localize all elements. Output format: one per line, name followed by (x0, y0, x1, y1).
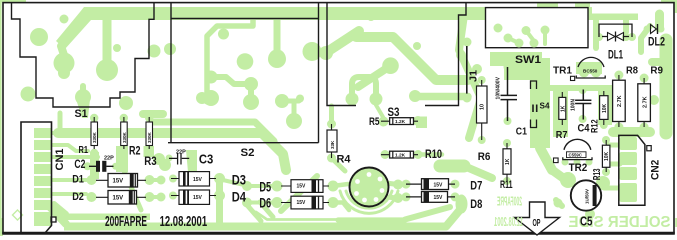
zener D8 (406, 192, 455, 203)
zener D1 (96, 174, 146, 188)
wire patches above SW1 (537, 3, 590, 8)
label S1 (75, 108, 88, 120)
resistor R4 body (327, 124, 337, 158)
svg-text:D5: D5 (259, 179, 271, 194)
label DL1 (608, 47, 623, 61)
resistor R11 pads (503, 139, 511, 185)
wire CN1 breakout traces (50, 133, 98, 224)
label C1 (516, 127, 528, 138)
value R2 rotated (122, 131, 127, 143)
value R1 rotated (92, 131, 97, 143)
svg-text:1K: 1K (505, 158, 511, 165)
diode DL2 (651, 24, 658, 34)
svg-text:C5: C5 (580, 214, 593, 229)
wire J1 pads (463, 38, 472, 103)
wire R4 feed trace (329, 106, 334, 122)
svg-text:R9: R9 (650, 66, 663, 77)
wire CN2 pins (604, 137, 637, 202)
diode D6 pads (242, 197, 349, 210)
switch pin mark (531, 81, 537, 128)
node big pad S3 (358, 57, 399, 87)
node pad S1 area big pad (30, 28, 48, 46)
svg-text:330K: 330K (92, 131, 97, 143)
value 15V D5 (297, 184, 307, 190)
svg-text:BC550: BC550 (583, 69, 598, 74)
svg-text:D7: D7 (470, 180, 482, 192)
svg-text:2.7K: 2.7K (642, 96, 648, 108)
svg-text:22P: 22P (104, 156, 114, 162)
label R2 (129, 143, 141, 157)
svg-text:J1: J1 (468, 70, 480, 82)
svg-text:DL2: DL2 (648, 35, 665, 49)
resistor 1K body (559, 92, 567, 125)
node pad (21, 87, 36, 102)
resistor R13 body (602, 140, 610, 172)
wire resistor bus bar (58, 133, 286, 170)
board edge copper top-right (661, 0, 677, 227)
wire teardrop (243, 90, 259, 110)
zener D3 (171, 172, 216, 186)
svg-text:2.7K: 2.7K (617, 95, 623, 107)
jumper J1 (466, 46, 468, 94)
resistor R12 pads (598, 86, 612, 129)
svg-text:R6: R6 (478, 151, 491, 163)
wire bottom link R8 R9 (613, 127, 650, 137)
date text (105, 213, 207, 230)
svg-text:100N: 100N (571, 99, 577, 111)
label S2 (241, 147, 255, 159)
svg-text:C2: C2 (74, 157, 85, 171)
diode D5 pads (242, 176, 348, 211)
diode D4 pads (169, 179, 225, 227)
svg-text:15V: 15V (113, 195, 124, 201)
diode D8 pads (402, 192, 460, 201)
svg-text:SW1: SW1 (515, 54, 541, 66)
wire bottom bar of S2 region (153, 122, 274, 141)
label S4 (540, 101, 550, 111)
value 15V D8 (434, 195, 444, 201)
node extra pads S2 density (203, 50, 302, 129)
svg-text:R1: R1 (79, 144, 89, 156)
resistor R9 pads (640, 74, 649, 132)
svg-text:C559C: C559C (569, 153, 582, 158)
svg-text:15V: 15V (193, 195, 203, 201)
node pad (113, 44, 121, 52)
wire snake trace S2 (205, 71, 259, 92)
mirrored green 12.08.2001 (494, 215, 523, 229)
svg-text:15V: 15V (193, 177, 203, 183)
svg-text:S1: S1 (75, 108, 88, 120)
svg-text:C1: C1 (516, 127, 528, 138)
node pads inside SW1 (494, 24, 539, 48)
label C4 (578, 122, 591, 134)
label R3 (144, 154, 157, 168)
value 15V D2 (113, 195, 124, 201)
svg-text:C4: C4 (578, 122, 591, 134)
svg-text:10N/400V: 10N/400V (496, 77, 502, 100)
label CN1 rotated (54, 149, 66, 171)
svg-text:S3: S3 (388, 107, 400, 119)
diode D3 pads (169, 173, 225, 184)
node pad right side S2 (303, 42, 322, 61)
svg-text:R3: R3 (144, 154, 157, 168)
label R9 (650, 66, 663, 77)
svg-text:R12: R12 (589, 119, 600, 133)
label R5 (369, 116, 380, 128)
wire stub near R3 top (143, 110, 163, 118)
label D5 (259, 179, 271, 194)
label C5 (580, 214, 593, 229)
wire L trace S2 bottom right (275, 94, 304, 127)
svg-text:D8: D8 (470, 199, 482, 211)
svg-text:R11: R11 (500, 179, 513, 191)
label DL2 (648, 35, 665, 49)
arrow OP (515, 202, 560, 235)
label D2 (72, 191, 84, 203)
capacitor 10N400V pads (504, 63, 513, 126)
svg-text:D6: D6 (259, 196, 271, 211)
label R1 (79, 144, 89, 156)
label D3 (232, 173, 247, 188)
heatsink outline S1 (12, 3, 155, 107)
zener D5 (281, 180, 329, 193)
value R4 rotated (330, 140, 335, 149)
transistor TR2 pads (562, 159, 593, 166)
resistor R2 pads (116, 114, 128, 172)
resistor R12 body (600, 91, 608, 125)
capacitor 22P first (89, 161, 114, 172)
connector CN2 (619, 135, 651, 205)
resistor R6 pads (478, 76, 486, 144)
bridge outline S3 (327, 3, 466, 106)
svg-text:330K: 330K (122, 131, 127, 143)
label R7 (556, 130, 568, 141)
label S3 (388, 107, 400, 119)
label R13 rotated (592, 168, 603, 180)
connector CN1 (21, 122, 56, 233)
label R11 (500, 179, 513, 191)
svg-text:R5: R5 (369, 116, 380, 128)
wire D7 D8 area traces (440, 166, 492, 178)
diode D2 pads (87, 192, 155, 202)
wire stub above bus (58, 113, 63, 130)
label C2 (74, 157, 85, 171)
node pad (238, 54, 253, 69)
resistor R11 body (503, 143, 511, 181)
diode DL1 pads (595, 33, 636, 41)
svg-text:15V: 15V (434, 182, 444, 188)
label SW1 (515, 54, 541, 66)
wire arcs under big cap (340, 191, 398, 213)
label D7 (470, 180, 482, 192)
wire TR1 surround pads (576, 62, 602, 78)
wire D3 to D5 (186, 150, 249, 186)
capacitor 22P second pads (166, 155, 195, 162)
zener D2 (96, 191, 146, 205)
node pad on S3 left edge (319, 46, 333, 60)
value 15V D1 (113, 178, 124, 184)
wire horizontal trace to edge (409, 90, 468, 102)
svg-text:10K: 10K (602, 103, 608, 113)
svg-text:TR1: TR1 (553, 65, 572, 77)
transistor TR2 (554, 139, 593, 162)
diode D1 pads (87, 166, 155, 210)
diode DL2 pads (644, 26, 665, 33)
wire top right verticals (590, 14, 660, 53)
node pad (218, 29, 229, 40)
resistor R9 body (638, 78, 651, 127)
resistor R8 body (613, 75, 626, 127)
label D8 (470, 199, 482, 211)
transistor TR1 (571, 57, 606, 80)
svg-text:DL1: DL1 (608, 47, 623, 61)
capacitor S4 bars (533, 105, 537, 113)
diode DL1 (599, 24, 632, 41)
capacitor 100N with label (571, 90, 592, 120)
svg-text:TR2: TR2 (569, 162, 588, 174)
resistor R3 body (146, 117, 153, 149)
label R8 (626, 66, 638, 77)
label D4 (232, 190, 247, 205)
label CN2 rotated (650, 160, 662, 180)
svg-text:R7: R7 (556, 130, 568, 141)
node pad on S2 left edge (164, 43, 176, 55)
node pad (367, 13, 375, 21)
diode D7 pads (402, 180, 460, 189)
label TR2 (569, 162, 588, 174)
svg-text:D1: D1 (72, 174, 84, 186)
svg-text:1.2K: 1.2K (395, 153, 406, 159)
wire teardrop trace (54, 46, 75, 79)
wire teardrop (75, 86, 91, 118)
resistor R2 body (121, 117, 128, 149)
node pad above R2 (119, 96, 133, 110)
svg-text:D4: D4 (232, 190, 247, 205)
label R4 (337, 153, 352, 165)
capacitor 100N pads (579, 86, 587, 123)
capacitor 22P second (169, 154, 189, 165)
svg-text:33K: 33K (330, 140, 335, 149)
resistor R4 pads (327, 120, 345, 172)
switch outline SW1 (486, 8, 589, 48)
svg-text:15V: 15V (113, 178, 124, 184)
capacitor C5 (571, 180, 601, 210)
label TR1 (553, 65, 572, 77)
resistor R13 pads (602, 136, 610, 176)
value 15V D3 (193, 177, 203, 183)
wire center green column (530, 58, 552, 170)
wire horizontal trace row (547, 85, 618, 91)
mirrored green 200FAPRE (497, 194, 522, 209)
svg-text:R10: R10 (425, 149, 442, 161)
svg-text:15V: 15V (297, 184, 307, 190)
wire link pads D1-D3 (152, 176, 166, 185)
wire right edge column (649, 40, 666, 133)
svg-text:OP: OP (533, 217, 541, 229)
svg-text:10: 10 (480, 104, 486, 110)
label R12 rotated (589, 119, 600, 133)
svg-text:S4: S4 (540, 101, 550, 111)
svg-text:R13: R13 (592, 168, 603, 180)
svg-text:22P: 22P (176, 150, 186, 156)
resistor R3 pads (144, 114, 172, 171)
wire S2 loop trace (196, 14, 253, 105)
label C3 (199, 153, 213, 167)
resistor R10 body (381, 151, 418, 158)
zener D7 (406, 179, 455, 190)
value R5 (395, 119, 406, 125)
label D1 (72, 174, 84, 186)
svg-text:15V: 15V (297, 200, 307, 206)
wire top bus bar (56, 7, 592, 49)
value 15V D6 (297, 200, 307, 206)
svg-text:330K: 330K (147, 131, 152, 143)
capacitor 10N 400V (496, 67, 518, 121)
wire C5 surround (552, 170, 610, 219)
wire link pads D2-D4 (152, 193, 166, 202)
label 22P second (176, 150, 186, 156)
svg-text:R8: R8 (626, 66, 638, 77)
wire bottom bar B (64, 195, 468, 231)
svg-text:R2: R2 (129, 143, 141, 157)
value R10 (395, 153, 406, 159)
resistor R10 pads (381, 150, 443, 159)
svg-text:10K: 10K (604, 151, 610, 161)
wire diagonal right of S3 (456, 15, 481, 138)
label D6 (259, 196, 271, 211)
svg-text:12.08.2001: 12.08.2001 (160, 213, 208, 230)
svg-text:15V: 15V (434, 195, 444, 201)
resistor R1 body (91, 117, 98, 149)
svg-text:1K: 1K (560, 105, 566, 112)
board edge copper top-left (0, 0, 26, 236)
label R10 (425, 149, 442, 161)
capacitor big filter cap copper disc (350, 168, 388, 206)
wire S3 long diagonal trace (356, 37, 468, 80)
capacitor big filter outline (350, 168, 389, 207)
node pad (413, 42, 421, 50)
svg-text:12.08.2001: 12.08.2001 (494, 215, 523, 229)
svg-text:R4: R4 (337, 153, 352, 165)
resistor R5 pads (376, 105, 427, 128)
svg-text:CN1: CN1 (54, 149, 66, 171)
svg-text:D2: D2 (72, 191, 84, 203)
zener D4 (171, 190, 216, 204)
node pad (148, 45, 161, 58)
wire traces under SW1 (490, 52, 542, 80)
wire CN1 fingers (34, 128, 52, 226)
fiducial diamond (13, 210, 23, 220)
svg-text:CN2: CN2 (650, 160, 662, 180)
label R6 (478, 151, 491, 163)
wire bottom bar A (64, 207, 450, 220)
capacitor 22P pads (84, 162, 120, 170)
svg-text:D3: D3 (232, 173, 247, 188)
value 15V D4 (193, 195, 203, 201)
value R3 rotated (147, 131, 152, 143)
resistor R8 pads (614, 71, 623, 132)
resistor 1K pads (553, 85, 568, 137)
mirrored green SOLDER SIDE (569, 214, 671, 231)
resistor R5 body (381, 118, 418, 125)
value 15V D7 (434, 182, 444, 188)
transformer outline S2 (168, 3, 319, 143)
node pad near J1 (472, 64, 482, 74)
label J1 (468, 70, 480, 82)
wire teardrop from bus (268, 20, 285, 67)
wire S3 diagonal to bus (330, 31, 359, 50)
svg-text:200FAPRE: 200FAPRE (105, 213, 147, 230)
resistor R1 pads (90, 114, 99, 179)
svg-text:S2: S2 (241, 147, 255, 159)
svg-text:C3: C3 (199, 153, 213, 167)
resistor R6 body 10 (477, 80, 488, 140)
wire arch trace (346, 77, 383, 106)
wire vertical trace with pad (96, 16, 118, 81)
svg-text:1.2K: 1.2K (395, 119, 406, 125)
svg-text:200FAPRE: 200FAPRE (497, 194, 522, 209)
svg-text:1U/50V: 1U/50V (585, 189, 590, 204)
node pad (60, 15, 69, 24)
label 22P first (104, 156, 114, 162)
zener D6 (281, 196, 329, 209)
wire pads left of D7 (386, 180, 403, 204)
